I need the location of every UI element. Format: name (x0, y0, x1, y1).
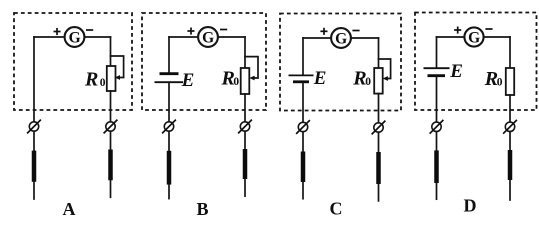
svg-text:0: 0 (497, 76, 503, 88)
terminal binding post (D left) (430, 120, 444, 134)
wire: C right terminal to electrode (378, 132, 380, 152)
wire: B right below rheostat (244, 94, 246, 122)
battery E (circuit C): long thin plate on top (289, 75, 314, 81)
wire: D left branch down to battery (436, 37, 438, 67)
rheostat wiper arm (circuit B) (245, 57, 258, 81)
dashed enclosure box A (14, 13, 132, 110)
electrode rod (B right) (243, 149, 248, 179)
wire: A left branch down to terminal (33, 37, 35, 122)
svg-text:R: R (84, 69, 98, 91)
terminal binding post (D right) (503, 120, 517, 134)
terminal binding post (A right) (104, 120, 118, 134)
wire: A right electrode lead end (110, 180, 112, 197)
dashed enclosure box C (280, 14, 401, 111)
svg-text:D: D (464, 196, 477, 216)
resistor R0 (circuit B, rheostat body) (241, 68, 250, 94)
wire: B left electrode lead end (168, 184, 170, 198)
wire: D left electrode lead end (436, 183, 438, 200)
wire: D right below resistor (509, 95, 511, 122)
electrode rod (B left) (167, 151, 172, 185)
svg-text:G: G (69, 30, 81, 47)
wire: B right terminal to electrode (244, 131, 246, 149)
svg-text:0: 0 (365, 76, 371, 88)
wire: C right electrode lead end (378, 184, 380, 201)
terminal binding post (C left) (296, 120, 310, 134)
battery E (circuit D): long thin plate on top (424, 68, 450, 76)
wire: B right branch down to rheostat (244, 37, 246, 68)
wire: A left terminal to electrode (33, 131, 35, 151)
svg-text:C: C (330, 199, 343, 218)
svg-text:0: 0 (100, 77, 106, 89)
electrode rod (D left) (434, 150, 439, 183)
wire: A left electrode lead end (33, 182, 35, 200)
wire: A right terminal to electrode (110, 131, 112, 150)
terminal binding post (B left) (162, 120, 176, 134)
polarity label + (B galvanometer) (187, 28, 194, 35)
wire: D right electrode lead end (509, 180, 511, 200)
wire: A right below rheostat (110, 91, 112, 122)
wire: A right branch down to rheostat (110, 37, 112, 66)
svg-text:G: G (202, 30, 214, 47)
rheostat wiper arm (circuit C) (379, 59, 391, 81)
wire: C battery to terminal (302, 83, 304, 123)
svg-text:A: A (63, 199, 76, 217)
wire: C left electrode lead end (302, 182, 304, 199)
terminal binding post (A left) (27, 120, 41, 134)
wire: D right branch down to resistor (509, 37, 511, 68)
wire: C right below rheostat (378, 94, 380, 123)
polarity label - (A galvanometer) (86, 29, 93, 31)
polarity label - (D galvanometer) (485, 28, 492, 30)
electrode rod (D right) (508, 150, 513, 180)
polarity label - (B galvanometer) (220, 29, 227, 31)
battery E (circuit B): short thick plate on top (155, 74, 184, 83)
wire: C left terminal to electrode (302, 132, 304, 152)
svg-text:G: G (335, 31, 347, 48)
wire: B right electrode lead end (244, 179, 246, 197)
dashed enclosure box D (415, 13, 537, 111)
svg-text:E: E (313, 68, 327, 89)
value label R0 (circuit A) (84, 69, 106, 91)
wire: B left branch down to battery (168, 37, 170, 72)
wire: B battery to terminal (168, 83, 170, 122)
resistor R0 (circuit A, rheostat body) (107, 66, 116, 91)
electrode rod (A left) (32, 151, 37, 182)
wire: top horizontal of B (169, 36, 245, 38)
polarity label + (C galvanometer) (320, 28, 327, 35)
value label R0 (circuit D) (484, 68, 503, 90)
svg-text:E: E (181, 70, 195, 91)
galvanometer G (circuit A) (65, 27, 85, 47)
galvanometer G (circuit B) (198, 27, 218, 47)
wire: C right branch down to rheostat (378, 38, 380, 68)
rheostat wiper arm (circuit A) (111, 56, 124, 80)
electrode rod (C left) (301, 152, 306, 183)
terminal binding post (B right) (238, 120, 252, 134)
polarity label + (D galvanometer) (454, 27, 461, 34)
wire: top horizontal of A (34, 36, 111, 38)
svg-text:G: G (468, 30, 480, 47)
wire: top horizontal of C (303, 37, 379, 39)
resistor R0 (circuit D, fixed) (506, 68, 514, 95)
wire: top horizontal of D (437, 36, 511, 38)
dashed enclosure box B (142, 13, 266, 110)
resistor R0 (circuit C, rheostat body) (374, 68, 383, 94)
svg-text:B: B (196, 199, 208, 217)
polarity label + (A galvanometer) (54, 28, 61, 35)
terminal binding post (C right) (372, 121, 386, 135)
electrode rod (A right) (108, 150, 113, 181)
wire: D left terminal to electrode (436, 132, 438, 151)
svg-text:E: E (449, 61, 463, 82)
galvanometer G (circuit C) (331, 28, 351, 48)
wire: D right terminal to electrode (509, 132, 511, 151)
value label R0 (circuit B) (221, 68, 240, 90)
polarity label - (C galvanometer) (352, 30, 359, 32)
electrode rod (C right) (376, 152, 381, 184)
value label R0 (circuit C) (352, 67, 371, 89)
wire: D battery to terminal (436, 76, 438, 122)
wire: B left terminal to electrode (168, 131, 170, 151)
svg-text:0: 0 (233, 76, 239, 88)
wire: C left branch down to battery (302, 38, 304, 75)
galvanometer G (circuit D) (464, 27, 483, 46)
